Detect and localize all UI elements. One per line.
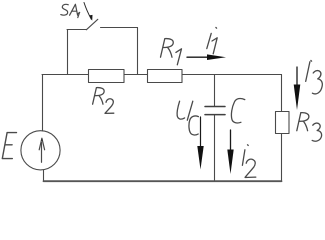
label R3	[297, 113, 322, 142]
wire capacitor branch top lead	[214, 75, 216, 107]
label R1	[161, 39, 182, 65]
label i3	[306, 61, 323, 94]
label R2	[93, 88, 114, 114]
wire bottom horizontal	[44, 180, 282, 182]
wire right branch bottom lead	[281, 134, 283, 182]
resistor R3	[276, 112, 290, 134]
wire switch-bypass right vertical	[137, 28, 139, 75]
current arrow i1	[187, 54, 226, 60]
label E	[2, 133, 16, 159]
label C (capacitor)	[231, 98, 244, 122]
label SA1	[61, 4, 80, 17]
wire right branch top lead	[281, 75, 283, 112]
source E arrow	[39, 138, 44, 162]
label Uc	[177, 101, 198, 135]
label i1	[207, 28, 217, 54]
current arrow i3	[294, 67, 301, 110]
switch SA1 pointer arrow	[84, 3, 93, 21]
wire capacitor branch bottom lead	[214, 115, 216, 181]
capacitor C plates	[205, 107, 225, 115]
label i2	[242, 145, 255, 178]
resistor R1	[148, 70, 183, 83]
resistor R2	[89, 70, 125, 83]
wire left vertical branch	[42, 75, 44, 132]
current arrow i2	[227, 130, 233, 174]
voltage arrow Uc	[197, 117, 203, 170]
wire switch-bypass left vertical	[67, 30, 69, 75]
source E circle	[21, 131, 60, 170]
wire switch-bypass top-left horizontal	[67, 29, 86, 31]
switch SA1 blade	[86, 19, 98, 30]
wire source E bottom stub	[43, 170, 45, 181]
wire main top horizontal	[42, 74, 282, 76]
wire switch-bypass top-right horizontal	[101, 27, 138, 29]
